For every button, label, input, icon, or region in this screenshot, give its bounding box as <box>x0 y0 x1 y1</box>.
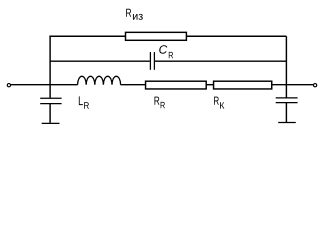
capacitor CR left plate <box>149 52 151 70</box>
terminator bar right <box>278 122 296 124</box>
wire: middle branch right <box>155 60 286 62</box>
wire: middle branch left <box>50 60 150 62</box>
resistor RR body <box>146 81 207 89</box>
resistor RK body <box>214 81 272 89</box>
left input terminal <box>7 84 10 87</box>
capacitor C1 stem bottom <box>49 104 51 123</box>
label LR <box>79 96 83 105</box>
wire: top branch left <box>49 35 125 37</box>
capacitor CR right plate <box>153 52 155 70</box>
capacitor C2 stem top <box>285 85 287 98</box>
capacitor C2 bottom plate <box>276 102 298 104</box>
left riser wire <box>49 36 51 84</box>
capacitor C1 stem top <box>49 85 51 98</box>
wire: left terminal to coil <box>11 84 78 86</box>
resistor Rиз body <box>126 32 187 40</box>
label RR <box>154 97 159 105</box>
right output terminal <box>313 84 316 87</box>
terminator bar left <box>42 122 60 124</box>
right riser wire <box>285 36 287 84</box>
wire: RR to RK <box>206 84 213 86</box>
inductor LR coil <box>78 76 121 84</box>
wire: coil to RR <box>121 84 146 86</box>
wire: top branch right <box>186 35 286 37</box>
label RK <box>214 97 219 105</box>
wire: RK to right terminal <box>272 84 314 86</box>
label CR <box>159 45 167 54</box>
label Rиз <box>126 9 131 17</box>
capacitor C1 bottom plate <box>40 103 61 105</box>
capacitor C1 top plate <box>40 97 61 99</box>
capacitor C2 top plate <box>276 97 298 99</box>
capacitor C2 stem bottom <box>285 103 287 122</box>
